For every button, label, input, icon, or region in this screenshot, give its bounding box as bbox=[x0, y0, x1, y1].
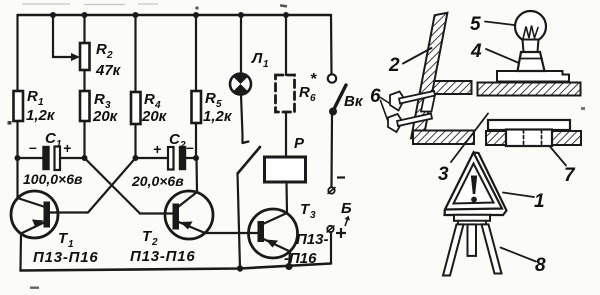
capacitor C2 positive plate bbox=[168, 147, 174, 170]
label R3 value bbox=[92, 91, 119, 125]
label R5 value bbox=[203, 90, 233, 125]
resistor R6 (dashed, optional) bbox=[276, 75, 295, 112]
svg-text:R: R bbox=[96, 41, 107, 58]
wire: R2 to R3 bbox=[83, 70, 85, 91]
svg-text:–: – bbox=[29, 139, 37, 155]
pointer line for 2 bbox=[403, 48, 432, 64]
wire: left column top rail to R1 bbox=[16, 15, 18, 91]
wire: node A down to T1 collector bbox=[16, 158, 18, 198]
clamp 7 top bar bbox=[488, 120, 570, 130]
svg-text:2: 2 bbox=[151, 237, 158, 248]
junction dots bottom rail bbox=[237, 263, 293, 272]
label R1 value bbox=[26, 88, 56, 124]
bracket bottom-left strip (hatched) bbox=[413, 131, 474, 145]
wire: bottom rail bbox=[21, 264, 332, 271]
socket seam line bbox=[520, 58, 543, 60]
pointer line for 3 bbox=[451, 114, 488, 163]
svg-text:1,2к: 1,2к bbox=[26, 107, 56, 124]
clamp 7 hidden bolt lines bbox=[524, 130, 542, 146]
tripod clamp lower tier bbox=[458, 221, 486, 225]
svg-text:20к: 20к bbox=[92, 108, 119, 125]
wire: top rail to lamp bbox=[240, 15, 242, 74]
scan speck above R6 bbox=[280, 4, 287, 8]
switch Vk pivot dot bbox=[329, 108, 337, 116]
relay contact fixed-end hook bbox=[243, 142, 249, 144]
wire: R5 bottom to node D bbox=[195, 123, 197, 158]
wire: plus terminal down to bottom rail corner bbox=[330, 232, 332, 264]
label T1 bbox=[33, 230, 99, 266]
screw 6b shaft bbox=[397, 114, 432, 127]
lamp bracket plate bbox=[497, 71, 569, 82]
transistor T2 bbox=[165, 191, 213, 239]
bulb socket 4 bbox=[518, 52, 545, 71]
tripod clamp plate bbox=[454, 215, 490, 221]
switch Vk lever bbox=[334, 85, 346, 109]
warning triangle 1 (board with thickness) bbox=[445, 153, 507, 216]
wire: top rail to R5 bbox=[195, 15, 197, 91]
resistor R3 bbox=[80, 91, 90, 121]
pointer line for 4 bbox=[486, 49, 519, 63]
wire: top rail to R2 bbox=[83, 15, 85, 43]
capacitor C2 negative plate bbox=[180, 147, 186, 170]
label T2 bbox=[130, 228, 196, 265]
bracket strut 2 (slanted hatched bar) bbox=[411, 13, 447, 138]
svg-text:1: 1 bbox=[263, 59, 269, 70]
svg-text:П13-: П13- bbox=[296, 231, 328, 248]
svg-text:R: R bbox=[144, 91, 155, 108]
wire: T2 emitter to T3 base bbox=[205, 232, 258, 234]
svg-text:Р: Р bbox=[294, 135, 305, 152]
svg-text:3: 3 bbox=[310, 210, 316, 221]
svg-text:5: 5 bbox=[470, 14, 481, 35]
wire: node C diagonal to T1 base bbox=[50, 158, 136, 213]
svg-text:–: – bbox=[186, 139, 194, 155]
label T3 bbox=[284, 201, 328, 267]
svg-text:6: 6 bbox=[310, 93, 316, 104]
svg-text:100,0×6в: 100,0×6в bbox=[23, 171, 83, 187]
bulb 5 globe bbox=[515, 11, 546, 42]
battery minus terminal bbox=[328, 187, 335, 193]
wire: top rail to R6 bbox=[285, 15, 287, 75]
label R2 value bbox=[95, 41, 122, 79]
label lamp L1 bbox=[251, 50, 269, 70]
scan speck left of R1 bottom bbox=[8, 121, 12, 125]
wire: node D down to T2 collector bbox=[195, 158, 198, 192]
svg-text:8: 8 bbox=[535, 255, 546, 276]
wire: R3 bottom to node B bbox=[83, 121, 85, 158]
label battery B bbox=[336, 178, 352, 239]
scan artifacts top edge bbox=[22, 3, 158, 6]
pointer line for 8 bbox=[501, 248, 537, 262]
svg-text:4: 4 bbox=[470, 41, 482, 62]
wire: node A to C1 bbox=[18, 157, 44, 159]
relay coil P bbox=[265, 157, 306, 182]
junction dots capacitor row bbox=[15, 155, 200, 161]
svg-text:1: 1 bbox=[534, 191, 545, 212]
svg-text:П13-П16: П13-П16 bbox=[33, 249, 99, 266]
label C2 bbox=[131, 131, 194, 189]
wire: C2 to node D bbox=[186, 157, 197, 159]
screw 6b head bbox=[388, 114, 403, 132]
svg-text:Б: Б bbox=[341, 200, 352, 217]
wire: top supply rail bbox=[18, 14, 332, 16]
bulb filament bbox=[523, 26, 539, 42]
resistor R2 (potentiometer) bbox=[80, 43, 90, 70]
svg-text:47к: 47к bbox=[95, 62, 122, 79]
tripod left leg 8 bbox=[443, 224, 464, 275]
svg-text:-П16: -П16 bbox=[284, 250, 317, 267]
svg-text:1,2к: 1,2к bbox=[203, 108, 233, 125]
capacitor C1 negative plate bbox=[43, 147, 49, 170]
tripod right leg bbox=[482, 224, 502, 273]
wire: R6 to relay coil bbox=[285, 112, 287, 157]
lamp L1 bbox=[230, 74, 251, 95]
pointer line for 5 bbox=[485, 22, 514, 26]
svg-text:Л: Л bbox=[251, 50, 263, 67]
triangle inner border bbox=[454, 164, 494, 204]
scan speck near top center bbox=[195, 6, 198, 9]
resistor R4 bbox=[131, 92, 141, 124]
resistor R1 bbox=[14, 91, 24, 121]
pointer lines for 6 bbox=[381, 98, 390, 104]
svg-text:2: 2 bbox=[388, 55, 400, 76]
screw 6a shaft bbox=[399, 91, 435, 104]
wiper arrowhead bbox=[71, 53, 80, 61]
wire: R4 bottom to node C bbox=[134, 124, 136, 158]
pointer line for 7 bbox=[550, 146, 567, 166]
wire: top rail to R4 bbox=[134, 15, 136, 92]
svg-text:1: 1 bbox=[56, 139, 62, 150]
svg-text:6: 6 bbox=[370, 86, 381, 107]
wire: R2 wiper from top rail bbox=[53, 15, 74, 57]
bulb neck bbox=[523, 40, 539, 53]
housing bottom plate (hatched) bbox=[486, 131, 581, 145]
capacitor C1 positive plate bbox=[55, 147, 61, 171]
scan dash bottom left bbox=[30, 287, 39, 289]
svg-text:R: R bbox=[94, 91, 105, 108]
relay contact lever bbox=[238, 147, 260, 173]
label R6 star bbox=[299, 71, 317, 104]
svg-text:3: 3 bbox=[438, 164, 449, 185]
svg-text:2: 2 bbox=[179, 140, 186, 151]
svg-text:П13-П16: П13-П16 bbox=[130, 248, 196, 265]
transistor T3 bbox=[249, 209, 298, 266]
tripod center leg bbox=[468, 224, 477, 256]
svg-text:+: + bbox=[63, 140, 71, 156]
wire: top rail right corner down to switch bbox=[330, 15, 333, 75]
svg-text:20к: 20к bbox=[141, 108, 168, 125]
label R4 value bbox=[141, 91, 168, 125]
svg-text:R: R bbox=[27, 88, 38, 105]
svg-text:Вк: Вк bbox=[344, 93, 364, 110]
housing top plate (hatched) bbox=[478, 83, 581, 96]
transistor T1 bbox=[11, 191, 58, 238]
wire: relay coil to T3 collector bbox=[285, 182, 288, 213]
bracket lip over strut bbox=[421, 95, 435, 112]
screw 6a head bbox=[390, 92, 405, 111]
svg-text:R: R bbox=[299, 84, 310, 101]
battery plus terminal bbox=[327, 226, 334, 232]
wire: T1 emitter to bottom rail bbox=[19, 234, 22, 271]
wire: contact to bottom rail bbox=[238, 173, 241, 269]
svg-text:*: * bbox=[310, 71, 317, 88]
scan speck right edge bbox=[581, 107, 585, 110]
wire: switch to battery minus terminal bbox=[330, 115, 333, 187]
exclamation mark bbox=[471, 176, 477, 203]
clamp 7 center block bbox=[506, 130, 552, 147]
bracket top-left arm (hatched) bbox=[429, 81, 472, 94]
svg-text:20,0×6в: 20,0×6в bbox=[131, 173, 184, 189]
svg-text:+: + bbox=[153, 141, 161, 157]
svg-text:R: R bbox=[205, 90, 216, 107]
resistor R5 bbox=[192, 91, 202, 123]
wire: lamp to relay contact fixed end bbox=[241, 95, 243, 144]
svg-text:7: 7 bbox=[564, 165, 576, 186]
wire: node B diagonal to T2 base bbox=[85, 158, 174, 214]
wire: R1 bottom to node A bbox=[16, 121, 18, 158]
switch Vk open terminal bbox=[328, 74, 336, 82]
pointer line for 1 bbox=[503, 193, 534, 198]
junction dots top rail bbox=[50, 12, 289, 18]
triangle front face bbox=[445, 153, 502, 210]
label C1 bbox=[23, 130, 83, 187]
svg-text:2: 2 bbox=[106, 50, 113, 61]
wire: node C to C2 bbox=[136, 157, 169, 159]
wire: C1 to node B bbox=[60, 157, 85, 159]
